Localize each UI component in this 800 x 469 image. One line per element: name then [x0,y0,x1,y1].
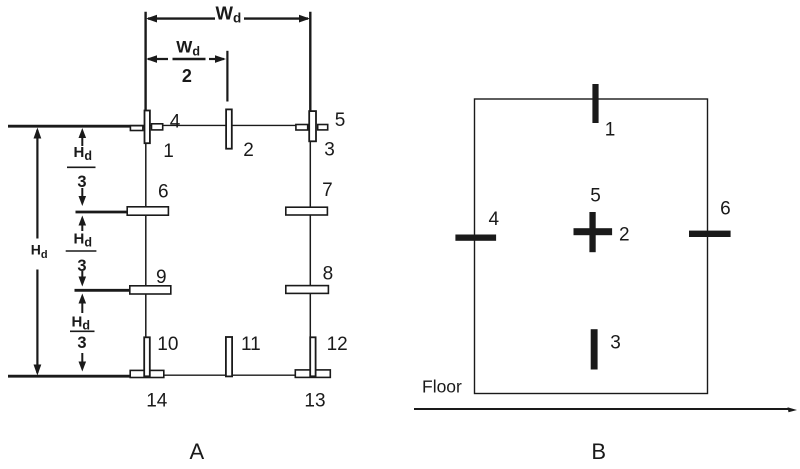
dimension Hd arrow line [36,130,38,239]
accelerometer 5 (cross vertical) [589,212,595,252]
floor ground line [414,408,790,410]
svg-text:6: 6 [158,182,169,203]
sensor 1 vertical bar [145,111,150,144]
dimension Hd/3 segment 3 arrows [81,302,83,313]
wire: right extension line above door [309,12,311,126]
sensor 8 bar [286,286,329,294]
svg-text:3: 3 [324,140,335,161]
svg-text:3: 3 [77,173,86,191]
sensor 12 vertical bar [310,337,315,376]
door outline B [475,99,708,394]
tick line Hd/3 lower [75,289,130,292]
wire: door bottom edge (thin) [131,374,331,376]
accelerometer 3 (bottom) [591,329,598,369]
wire: left extension line above door [144,12,146,126]
svg-text:1: 1 [163,141,174,162]
sensor 9 bar [130,286,171,294]
svg-text:2: 2 [243,140,254,161]
svg-text:10: 10 [157,334,178,355]
svg-text:6: 6 [720,199,731,220]
dimension Wd/2 arrow line [148,58,168,60]
dimension Hd/3 segment 2 arrows [81,224,83,231]
svg-text:4: 4 [170,111,181,132]
wire: door right edge [309,126,311,376]
svg-text:2: 2 [182,66,192,86]
svg-text:9: 9 [156,267,167,288]
svg-text:B: B [591,439,606,464]
sensor 5 bar left piece [296,125,308,131]
svg-text:5: 5 [590,186,601,207]
label Wd/2 fraction bar [173,58,206,60]
sensor 3 vertical bar [309,111,316,141]
svg-text:8: 8 [323,263,334,284]
tick line Hd/3 upper [76,211,130,214]
sensor 10 vertical bar [144,337,150,376]
wire: door top edge (thin) [146,124,310,126]
wire: door left edge [145,126,147,376]
svg-text:3: 3 [77,257,86,275]
sensor 2 vertical bar [226,109,232,148]
sensor 4 bar left piece [130,126,143,131]
accelerometer 6 (right edge) [689,231,731,237]
sensor 4 bar right piece [152,124,163,130]
svg-text:4: 4 [489,209,500,230]
sensor 11 vertical bar [226,337,232,376]
wire: left wall line (bottom, thick) [8,375,131,378]
svg-text:A: A [190,439,205,464]
accelerometer 4 (left edge) [455,235,496,241]
wire: left wall line (top, thick) [8,125,146,128]
svg-text:2: 2 [619,224,630,245]
accelerometer 2 (cross horizontal) [574,228,613,235]
accelerometer 1 (top) [592,84,598,123]
sensor 6 bar [127,207,168,215]
svg-text:12: 12 [327,334,348,355]
svg-text:14: 14 [146,391,168,412]
dimension Wd arrow line [148,17,215,19]
sensor 7 bar [286,207,328,215]
sensor 13 bar [295,370,330,378]
wire: centre extension line above door [226,51,228,102]
sensor 14 bar [130,370,164,377]
dimension Hd/3 segment 1 arrows [81,136,83,146]
svg-text:Floor: Floor [422,377,462,397]
sensor 5 bar right piece [318,125,328,130]
svg-text:1: 1 [605,120,616,141]
svg-text:13: 13 [304,391,325,412]
svg-text:3: 3 [77,334,86,352]
svg-text:7: 7 [322,180,333,201]
svg-text:5: 5 [335,110,346,131]
svg-text:11: 11 [241,334,261,355]
svg-text:3: 3 [610,332,621,353]
